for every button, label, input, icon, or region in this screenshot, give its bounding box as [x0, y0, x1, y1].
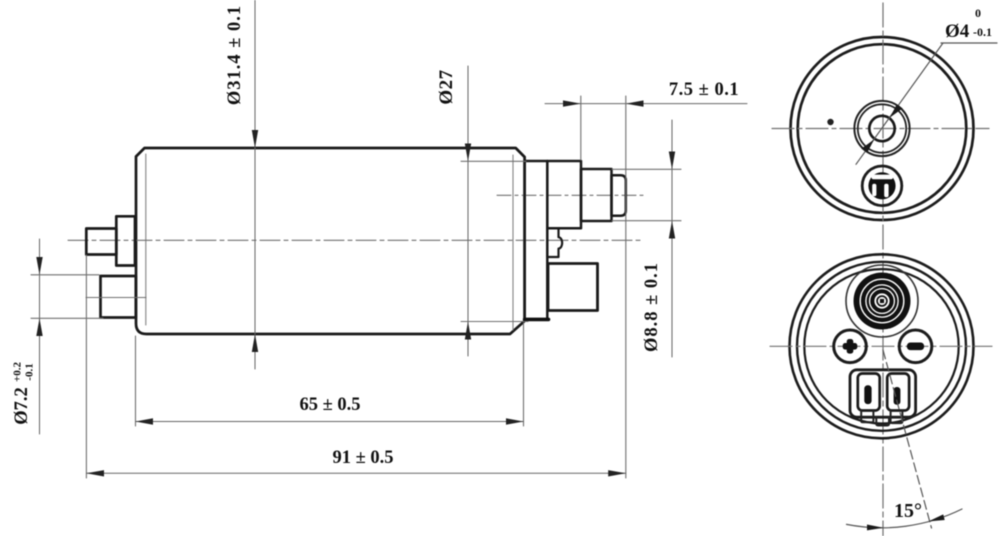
- dim 91 right arrow: [608, 470, 626, 476]
- svg-text:Ø31.4 ± 0.1: Ø31.4 ± 0.1: [225, 5, 245, 105]
- outlet tube: [581, 169, 612, 221]
- dim 7.2 ext bottom: [31, 317, 103, 319]
- svg-text:Ø27: Ø27: [436, 69, 457, 104]
- dim 8.8 bottom arrow: [669, 221, 675, 239]
- dim 31.4 line: [254, 0, 256, 369]
- top view rim circle: [798, 44, 967, 213]
- dim 65 left arrow: [136, 418, 154, 424]
- ext line x=135.5 (65 left): [135, 336, 137, 426]
- inlet tube: [86, 229, 116, 255]
- connector right leg: [891, 411, 903, 424]
- flange bottom thick edge: [525, 318, 549, 322]
- top view outer circle: [791, 37, 974, 220]
- vent feature ring: [862, 166, 902, 206]
- bottom view ring3: [804, 269, 958, 423]
- svg-text:65 ± 0.5: 65 ± 0.5: [299, 395, 360, 415]
- bottom view outer circle: [790, 254, 974, 438]
- small dot: [827, 119, 833, 125]
- leader line dia4: [856, 43, 943, 164]
- leader landing: [941, 42, 997, 44]
- dim 7.5 left arrow: [563, 100, 581, 106]
- dim 7.2 line: [39, 239, 41, 434]
- connector shell: [850, 370, 916, 417]
- port mid line: [86, 297, 146, 299]
- svg-text:91 ± 0.5: 91 ± 0.5: [332, 448, 393, 468]
- dim 27 bottom arrow: [465, 322, 471, 340]
- connector left leg: [861, 411, 873, 423]
- main centerline: [68, 239, 643, 241]
- dim 65 line: [136, 421, 524, 423]
- dim 8.8 ext bottom: [612, 220, 681, 222]
- connector left pocket: [858, 374, 880, 411]
- dia4 arrows: [890, 104, 903, 117]
- dim 27 ext bottom: [461, 321, 528, 323]
- bottom view ring2: [797, 262, 966, 431]
- connector bottom tab: [876, 417, 889, 426]
- svg-text:15°: 15°: [894, 500, 922, 522]
- outlet cap: [612, 175, 626, 215]
- inlet spigot outer ring: [854, 101, 909, 156]
- pump body outline (side view): [136, 148, 525, 334]
- ext line x=86.4 (inlet/91): [85, 255, 87, 478]
- svg-text:7.5 ± 0.1: 7.5 ± 0.1: [669, 80, 739, 100]
- dim 7.5 ext left: [580, 96, 582, 160]
- dim 7.5 right arrow: [626, 100, 644, 106]
- valve tab with nub: [547, 228, 562, 257]
- svg-text:+0.2: +0.2: [12, 361, 24, 382]
- dim 27 ext top: [461, 160, 526, 162]
- lower-left port: [101, 276, 136, 318]
- outlet centerline: [497, 194, 645, 196]
- dim 8.8 line: [671, 120, 673, 357]
- dim 7.2 bottom arrow: [36, 318, 42, 336]
- dim 31.4 bottom arrow: [252, 334, 258, 352]
- ext line x=523.5 (65 right): [523, 323, 525, 426]
- top view horizontal centerline: [772, 128, 989, 130]
- outlet port black rings: [854, 273, 911, 330]
- dim 7.5 line: [545, 103, 747, 105]
- svg-text:Ø4: Ø4: [945, 21, 970, 42]
- outlet base block: [547, 161, 581, 228]
- vent black disc: [868, 172, 895, 199]
- dim 7.2 top arrow: [36, 257, 42, 275]
- 15 deg line: [883, 350, 932, 528]
- 15 deg arc: [847, 509, 963, 528]
- shared vertical centerline: [882, 3, 884, 536]
- dim 7.2 ext top: [31, 274, 99, 276]
- svg-text:Ø7.2: Ø7.2: [12, 387, 32, 425]
- body inner seam line right: [512, 155, 514, 330]
- outlet port outer circle: [846, 265, 918, 337]
- connector block side view: [548, 264, 598, 311]
- svg-text:Ø8.8 ± 0.1: Ø8.8 ± 0.1: [642, 262, 662, 352]
- svg-text:0: 0: [975, 6, 981, 20]
- inlet spigot second ring: [858, 104, 906, 152]
- arc arrows: [867, 525, 884, 531]
- dim 91 left arrow: [86, 470, 104, 476]
- dim 8.8 top arrow: [669, 152, 675, 170]
- dim 8.8 ext top: [612, 168, 681, 170]
- dim 91 line: [86, 472, 625, 474]
- ext line x=625.8 (tip/91): [625, 96, 627, 478]
- svg-text:-0.1: -0.1: [973, 25, 992, 39]
- svg-text:-0.1: -0.1: [24, 363, 36, 380]
- inlet spigot hole: [869, 116, 894, 141]
- body inner seam line left: [145, 154, 147, 325]
- dim 7.2 text: [12, 361, 36, 424]
- right flange plate: [525, 161, 548, 320]
- connector right pocket: [887, 374, 909, 411]
- connector pins: [864, 385, 871, 404]
- bottom view horizontal centerline: [770, 345, 992, 347]
- dim 31.4 top arrow: [252, 130, 258, 148]
- dim 27 line: [467, 66, 469, 356]
- inlet collar: [116, 216, 135, 265]
- dim 27 top arrow: [465, 144, 471, 162]
- vent white slots: [872, 175, 894, 198]
- terminal minus: [899, 330, 932, 363]
- dim 65 right arrow: [506, 418, 524, 424]
- terminal plus: [834, 330, 867, 363]
